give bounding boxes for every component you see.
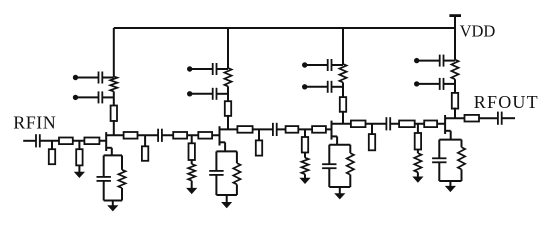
svg-text:VDD: VDD bbox=[460, 21, 496, 40]
svg-text:RFOUT: RFOUT bbox=[474, 92, 538, 112]
svg-text:RFIN: RFIN bbox=[13, 113, 56, 133]
